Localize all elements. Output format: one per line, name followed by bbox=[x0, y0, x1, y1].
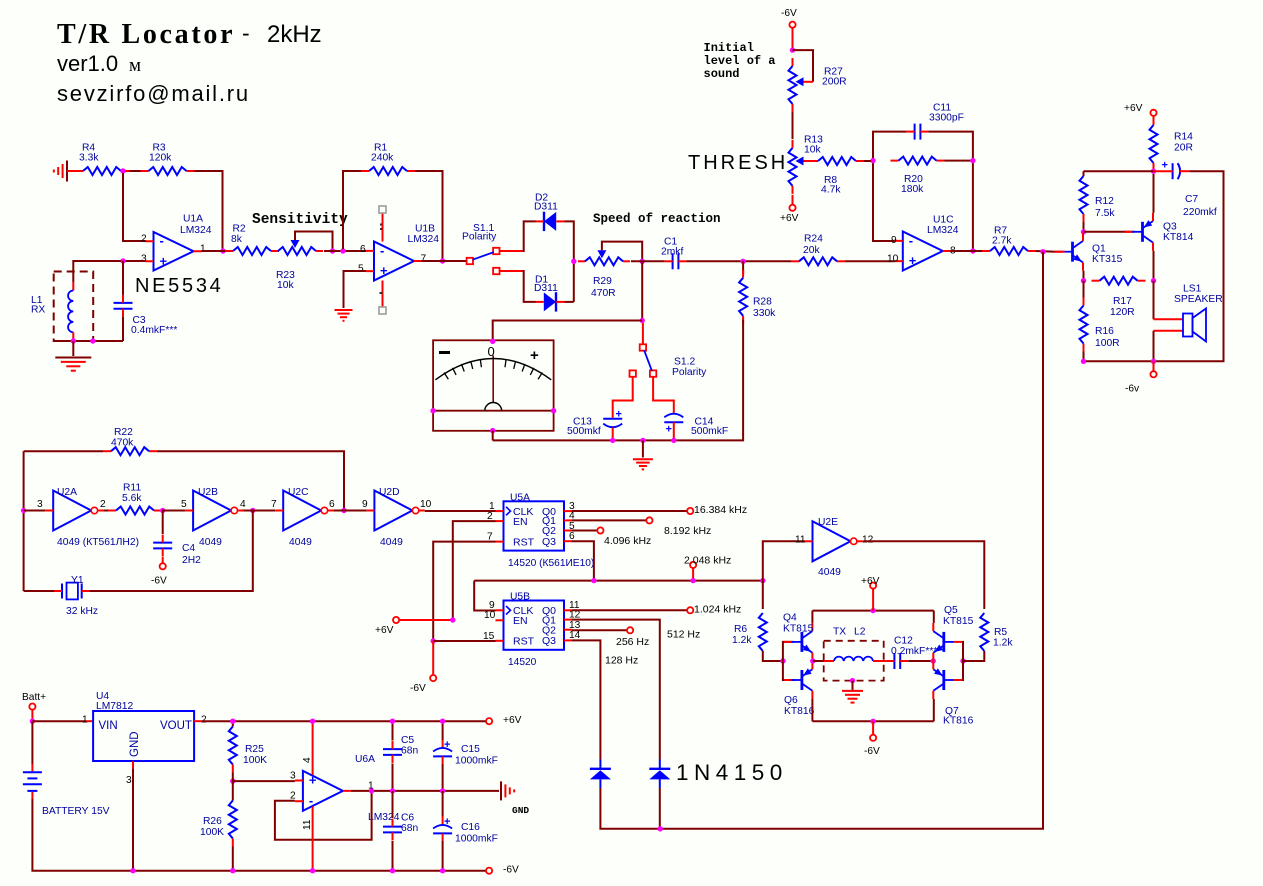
counter U5A 14520 bbox=[487, 492, 594, 569]
wire bbox=[1153, 361, 1155, 371]
diode D1 bbox=[534, 275, 565, 312]
svg-text:-: - bbox=[242, 20, 250, 46]
label THRESH bbox=[688, 152, 788, 174]
transistor Q1 KT315 bbox=[1055, 233, 1123, 271]
junction bbox=[610, 438, 615, 443]
connector -6V U5 bbox=[410, 675, 436, 694]
svg-text:14: 14 bbox=[569, 630, 581, 641]
capacitor C7 bbox=[1154, 160, 1217, 219]
wire bbox=[863, 541, 984, 609]
svg-text:SPEAKER: SPEAKER bbox=[1174, 294, 1223, 305]
wire bbox=[123, 173, 146, 241]
wire bbox=[686, 260, 791, 262]
connector 2.048 kHz bbox=[684, 555, 731, 581]
junction bbox=[790, 47, 795, 52]
svg-text:12: 12 bbox=[862, 534, 874, 545]
wire bbox=[195, 171, 223, 251]
wire bbox=[90, 511, 253, 592]
node pin3 bbox=[120, 258, 125, 263]
wire bbox=[631, 260, 665, 262]
op-amp U1A bbox=[141, 214, 212, 271]
svg-text:220mkf: 220mkf bbox=[1183, 207, 1217, 218]
svg-text:VIN: VIN bbox=[99, 720, 118, 732]
svg-text:0.4mkF***: 0.4mkF*** bbox=[131, 325, 177, 336]
junction bbox=[571, 259, 576, 264]
transistor Q5 KT815 bbox=[933, 605, 973, 661]
potentiometer R13 THRESH bbox=[789, 135, 824, 194]
svg-text:68n: 68n bbox=[401, 746, 418, 757]
junction bbox=[1151, 169, 1156, 174]
svg-text:11: 11 bbox=[795, 534, 806, 545]
wire bbox=[565, 221, 574, 302]
junction bbox=[1151, 359, 1156, 364]
svg-text:1: 1 bbox=[82, 714, 88, 725]
junction bbox=[390, 719, 395, 724]
resistor R7 bbox=[982, 226, 1036, 255]
junction bbox=[440, 719, 445, 724]
junction bbox=[931, 658, 936, 663]
svg-text:Q3: Q3 bbox=[1163, 222, 1177, 233]
wire bbox=[432, 641, 434, 675]
svg-text:120R: 120R bbox=[1110, 307, 1135, 318]
wire bbox=[351, 790, 499, 792]
svg-text:2mkf: 2mkf bbox=[661, 247, 683, 258]
svg-text:RST: RST bbox=[513, 636, 535, 648]
svg-text:U2C: U2C bbox=[288, 487, 309, 498]
inverter U2A bbox=[37, 487, 139, 548]
svg-text:Polarity: Polarity bbox=[462, 232, 497, 243]
wire bottom rail bbox=[812, 720, 933, 722]
wire bbox=[963, 660, 984, 662]
svg-text:+: + bbox=[160, 253, 168, 268]
svg-text:20k: 20k bbox=[803, 245, 820, 256]
speaker LS1 bbox=[1174, 284, 1223, 342]
node U1B output bbox=[440, 258, 445, 263]
svg-text:LM7812: LM7812 bbox=[96, 701, 133, 712]
svg-text:R28: R28 bbox=[753, 297, 772, 308]
svg-text:sound: sound bbox=[704, 67, 740, 81]
svg-text:GND: GND bbox=[512, 805, 529, 816]
svg-text:+: + bbox=[666, 424, 672, 436]
svg-text:1.2k: 1.2k bbox=[732, 635, 752, 646]
label 1N4150 bbox=[676, 760, 788, 785]
svg-text:level of a: level of a bbox=[704, 54, 776, 68]
wire bbox=[129, 170, 141, 172]
svg-text:8k: 8k bbox=[231, 234, 243, 245]
wire bbox=[928, 132, 973, 251]
inverter U2C bbox=[271, 487, 335, 548]
svg-text:4: 4 bbox=[302, 757, 313, 763]
wire bbox=[54, 340, 123, 342]
junction bbox=[671, 438, 676, 443]
potentiometer R27 bbox=[789, 50, 847, 112]
svg-text:1: 1 bbox=[200, 243, 206, 254]
junction bbox=[780, 658, 785, 663]
wire bbox=[31, 721, 33, 764]
wire bbox=[32, 720, 85, 722]
wire bbox=[104, 510, 108, 512]
title text bbox=[57, 19, 322, 106]
resistor R20 bbox=[891, 157, 945, 195]
capacitor C12 bbox=[886, 636, 937, 669]
capacitor C16 bbox=[433, 791, 498, 871]
resistor R11 bbox=[108, 483, 162, 515]
svg-text:1N4150: 1N4150 bbox=[676, 760, 788, 785]
connector +6V U5 bbox=[375, 617, 399, 636]
svg-text:L2: L2 bbox=[854, 627, 866, 638]
svg-text:2: 2 bbox=[100, 499, 106, 510]
wire bbox=[1083, 271, 1085, 281]
junction bbox=[330, 248, 335, 253]
junction bbox=[230, 778, 235, 783]
resistor R26 bbox=[200, 781, 237, 871]
junction bbox=[21, 508, 26, 513]
wire bbox=[425, 510, 496, 512]
svg-text:R17: R17 bbox=[1113, 296, 1132, 307]
connector 256 Hz bbox=[616, 627, 649, 648]
wire bbox=[194, 720, 202, 722]
wire bbox=[31, 710, 33, 722]
svg-text:+: + bbox=[1162, 160, 1168, 172]
junction bbox=[1040, 249, 1045, 254]
svg-text:KT815: KT815 bbox=[783, 624, 814, 635]
wire 512 Hz bbox=[572, 620, 700, 760]
svg-text:RST: RST bbox=[513, 536, 535, 548]
U1B power pin top bbox=[379, 206, 386, 242]
wire bbox=[32, 799, 133, 871]
svg-text:14520 (К561ИЕ10): 14520 (К561ИЕ10) bbox=[508, 558, 594, 569]
junction bbox=[970, 158, 975, 163]
svg-text:BATTERY 15V: BATTERY 15V bbox=[42, 806, 110, 817]
resistor R5 bbox=[965, 613, 1013, 661]
capacitor C15 bbox=[433, 721, 498, 791]
wire bbox=[1084, 360, 1154, 362]
wire bbox=[415, 171, 443, 261]
wire bbox=[572, 629, 627, 631]
svg-text:D311: D311 bbox=[534, 283, 558, 294]
connector 16.384 kHz bbox=[687, 504, 747, 516]
switch S1.2 Polarity bbox=[630, 323, 708, 378]
wire bbox=[613, 377, 633, 418]
svg-text:5.6k: 5.6k bbox=[122, 493, 142, 504]
wire bbox=[499, 270, 536, 302]
wire bbox=[499, 221, 536, 252]
wire bbox=[792, 195, 794, 205]
svg-text:KT814: KT814 bbox=[1163, 232, 1194, 243]
resistor R4 bbox=[75, 143, 129, 175]
svg-text:2.048 kHz: 2.048 kHz bbox=[684, 555, 731, 567]
svg-text:0.2mkF***: 0.2mkF*** bbox=[891, 646, 937, 657]
svg-text:C4: C4 bbox=[182, 543, 195, 554]
junction bbox=[440, 868, 445, 873]
svg-text:4049 (КТ561ЛН2): 4049 (КТ561ЛН2) bbox=[57, 537, 139, 548]
svg-text:C16: C16 bbox=[461, 822, 480, 833]
wire bbox=[493, 320, 743, 441]
svg-text:100R: 100R bbox=[1095, 338, 1120, 349]
resistor R25 bbox=[229, 721, 267, 772]
U1B power pin bottom bbox=[379, 281, 386, 315]
svg-text:U1B: U1B bbox=[415, 224, 435, 235]
wire bbox=[1084, 170, 1154, 172]
junction bbox=[1151, 278, 1156, 283]
junction bbox=[490, 428, 495, 433]
junction bbox=[160, 508, 165, 513]
connector -6V rail bbox=[486, 864, 519, 875]
wire bbox=[792, 112, 794, 139]
wire bbox=[1084, 231, 1135, 233]
junction bbox=[30, 719, 35, 724]
resistor R22 bbox=[103, 427, 157, 455]
wire bbox=[344, 271, 367, 308]
wire bbox=[1154, 281, 1184, 320]
svg-text:6: 6 bbox=[360, 244, 366, 255]
capacitor C11 bbox=[907, 103, 964, 140]
svg-text:ver1.0: ver1.0 bbox=[57, 51, 118, 76]
svg-text:9: 9 bbox=[891, 235, 897, 246]
svg-text:32 kHz: 32 kHz bbox=[66, 606, 98, 617]
transistor Q6 KT816 bbox=[784, 661, 815, 717]
wire bbox=[202, 720, 486, 722]
ground S1.2 bbox=[633, 440, 653, 469]
svg-text:470k: 470k bbox=[111, 438, 134, 449]
svg-text:U2B: U2B bbox=[198, 487, 218, 498]
transistor Q3 KT814 bbox=[1125, 213, 1194, 251]
svg-text:5: 5 bbox=[181, 499, 187, 510]
svg-text:KT815: KT815 bbox=[943, 616, 974, 627]
wire bbox=[453, 521, 496, 620]
wire bbox=[933, 699, 935, 721]
junction bbox=[551, 408, 556, 413]
svg-text:U6A: U6A bbox=[355, 754, 375, 765]
node U1A output bbox=[220, 248, 225, 253]
svg-text:Q4: Q4 bbox=[783, 613, 797, 624]
wire bbox=[933, 611, 935, 623]
junction bbox=[390, 788, 395, 793]
wire bbox=[1154, 330, 1184, 332]
wire bbox=[1153, 174, 1155, 213]
wire bbox=[845, 260, 895, 262]
svg-text:Initial: Initial bbox=[704, 41, 754, 55]
svg-text:NE5534: NE5534 bbox=[135, 275, 223, 297]
bus wire 2.048 kHz bbox=[474, 580, 763, 582]
svg-text:2: 2 bbox=[201, 714, 207, 725]
svg-text:-6V: -6V bbox=[503, 864, 519, 875]
resistor R14 bbox=[1150, 116, 1194, 169]
label NE5534 bbox=[135, 275, 223, 297]
junction bbox=[870, 608, 875, 613]
svg-text:+6V: +6V bbox=[780, 213, 799, 224]
svg-text:3: 3 bbox=[37, 499, 43, 510]
wire bbox=[873, 132, 907, 241]
svg-text:R5: R5 bbox=[994, 627, 1007, 638]
svg-text:THRESH: THRESH bbox=[688, 152, 788, 174]
svg-text:3: 3 bbox=[290, 770, 296, 781]
svg-text:4049: 4049 bbox=[289, 537, 312, 548]
svg-text:U5B: U5B bbox=[510, 591, 530, 602]
wire bbox=[233, 780, 295, 782]
battery BATTERY 15V bbox=[23, 764, 110, 817]
svg-text:500mkF: 500mkF bbox=[691, 426, 728, 437]
inverter U2D bbox=[362, 487, 432, 548]
wire bbox=[202, 250, 226, 252]
svg-text:200R: 200R bbox=[822, 77, 847, 88]
resistor R1 bbox=[361, 143, 415, 175]
wire bbox=[1153, 331, 1155, 362]
svg-text:S1.2: S1.2 bbox=[674, 357, 695, 368]
connector 4.096 kHz bbox=[597, 527, 651, 547]
svg-text:100K: 100K bbox=[200, 827, 224, 838]
svg-text:4049: 4049 bbox=[380, 537, 403, 548]
wire bbox=[433, 640, 495, 642]
svg-text:KT816: KT816 bbox=[784, 706, 815, 717]
wire bbox=[275, 791, 372, 840]
svg-text:7: 7 bbox=[421, 253, 427, 264]
switch S1.1 Polarity bbox=[462, 223, 500, 274]
svg-text:8.192 kHz: 8.192 kHz bbox=[664, 525, 711, 537]
svg-text:R26: R26 bbox=[203, 816, 222, 827]
svg-text:Sensitivity: Sensitivity bbox=[252, 212, 348, 228]
svg-text:4: 4 bbox=[240, 499, 246, 510]
svg-text:14520: 14520 bbox=[508, 657, 537, 668]
svg-text:-6V: -6V bbox=[781, 8, 797, 19]
svg-text:C15: C15 bbox=[461, 744, 480, 755]
wire bbox=[653, 377, 674, 414]
svg-text:м: м bbox=[129, 55, 141, 76]
wire bbox=[244, 510, 276, 512]
connector -6v audio bbox=[1125, 371, 1157, 394]
svg-text:1000mkF: 1000mkF bbox=[455, 834, 498, 845]
potentiometer R23 Sensitivity bbox=[271, 232, 333, 292]
svg-text:4.096 kHz: 4.096 kHz bbox=[604, 535, 651, 547]
diode D4 1N4150 bbox=[649, 760, 670, 789]
svg-text:Q1: Q1 bbox=[1092, 244, 1106, 255]
svg-text:R11: R11 bbox=[123, 483, 141, 494]
wire bbox=[343, 171, 361, 249]
svg-text:1.024 kHz: 1.024 kHz bbox=[694, 604, 741, 616]
wire bbox=[572, 609, 687, 611]
junction bbox=[250, 508, 255, 513]
svg-text:7.5k: 7.5k bbox=[1095, 208, 1115, 219]
resistor R16 bbox=[1080, 281, 1120, 362]
svg-text:3: 3 bbox=[141, 253, 147, 264]
wire bbox=[125, 260, 146, 262]
junction bbox=[230, 719, 235, 724]
svg-text:Y1: Y1 bbox=[71, 575, 84, 586]
wire bbox=[811, 699, 813, 721]
wire U6A V+ bbox=[312, 721, 314, 775]
resistor R8 bbox=[810, 157, 864, 196]
svg-text:KT816: KT816 bbox=[943, 716, 974, 727]
diode D2 bbox=[534, 193, 565, 232]
svg-text:16.384 kHz: 16.384 kHz bbox=[694, 504, 747, 516]
svg-text:10k: 10k bbox=[277, 280, 294, 291]
svg-text:LM324: LM324 bbox=[180, 225, 212, 236]
junction bbox=[640, 318, 645, 323]
wire bbox=[162, 510, 185, 512]
connector -6V top bbox=[781, 8, 797, 28]
svg-text:128 Hz: 128 Hz bbox=[605, 655, 638, 667]
svg-text:10k: 10k bbox=[804, 145, 821, 156]
junction bbox=[340, 248, 345, 253]
wire bbox=[811, 611, 813, 623]
connector +6V audio bbox=[1124, 103, 1157, 116]
junction bbox=[1081, 278, 1086, 283]
svg-text:11: 11 bbox=[302, 819, 313, 830]
junction bbox=[341, 508, 346, 513]
wire bbox=[763, 541, 805, 580]
junction bbox=[130, 868, 135, 873]
connector -6V C4 bbox=[151, 563, 167, 586]
connector 8.192 kHz bbox=[646, 517, 711, 537]
potentiometer R29 Speed of reaction bbox=[578, 242, 642, 299]
capacitor C4 bbox=[153, 511, 201, 567]
svg-text:VOUT: VOUT bbox=[160, 720, 192, 732]
svg-text:TX: TX bbox=[833, 627, 846, 638]
svg-text:68n: 68n bbox=[401, 823, 418, 834]
transformer TX L2 bbox=[813, 627, 887, 681]
junction bbox=[431, 638, 436, 643]
svg-text:10: 10 bbox=[420, 499, 432, 510]
svg-text:T/R Locator: T/R Locator bbox=[57, 19, 235, 50]
inverter U2B bbox=[181, 487, 246, 548]
crystal Y1 bbox=[54, 575, 98, 617]
svg-text:sevzirfo@mail.ru: sevzirfo@mail.ru bbox=[57, 81, 250, 106]
wire bbox=[1153, 251, 1155, 281]
svg-text:R25: R25 bbox=[245, 744, 264, 755]
svg-text:-6V: -6V bbox=[864, 746, 880, 757]
wire bbox=[24, 590, 54, 592]
svg-text:+: + bbox=[530, 347, 539, 364]
capacitor C5 bbox=[383, 721, 418, 791]
svg-text:U1A: U1A bbox=[183, 214, 203, 225]
svg-text:+6V: +6V bbox=[503, 715, 522, 726]
wire bbox=[493, 321, 643, 342]
svg-text:+6V: +6V bbox=[861, 576, 880, 587]
svg-text:5: 5 bbox=[358, 263, 364, 274]
svg-text:Q3: Q3 bbox=[542, 536, 556, 548]
wire bottom rail bbox=[133, 870, 486, 872]
junction TX tap bbox=[850, 678, 855, 683]
svg-text:LM324: LM324 bbox=[408, 234, 440, 245]
diode D3 1N4150 bbox=[590, 760, 611, 789]
svg-text:U5A: U5A bbox=[510, 492, 530, 503]
svg-text:0: 0 bbox=[488, 344, 495, 359]
resistor R6 bbox=[732, 581, 781, 661]
wire bbox=[565, 301, 574, 303]
svg-text:500mkf: 500mkf bbox=[567, 426, 601, 437]
resistor R2 bbox=[225, 224, 279, 255]
wire bbox=[492, 431, 494, 441]
wire bbox=[951, 250, 982, 252]
junction bbox=[310, 868, 315, 873]
wire U6A V- bbox=[312, 807, 314, 871]
capacitor C14 bbox=[664, 414, 728, 441]
wire bbox=[399, 619, 453, 621]
svg-text:3.3k: 3.3k bbox=[79, 153, 99, 164]
junction bbox=[690, 578, 695, 583]
wire 128 Hz bbox=[572, 640, 638, 759]
connector Batt+ bbox=[22, 692, 46, 710]
svg-text:180k: 180k bbox=[901, 184, 924, 195]
svg-text:Polarity: Polarity bbox=[672, 367, 707, 378]
svg-text:U2A: U2A bbox=[57, 487, 77, 498]
junction bbox=[760, 578, 765, 583]
junction bbox=[230, 868, 235, 873]
op-amp U1B bbox=[358, 224, 439, 281]
connector -6V TX bbox=[864, 735, 880, 757]
svg-text:4.7k: 4.7k bbox=[821, 185, 841, 196]
capacitor C1 bbox=[661, 237, 686, 270]
